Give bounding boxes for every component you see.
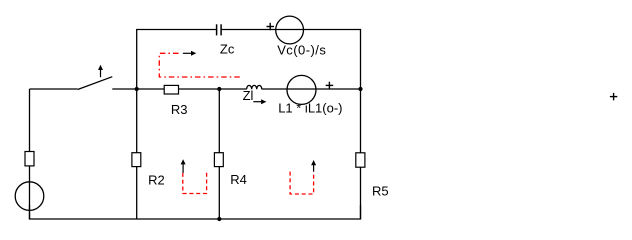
wire switch right contact xyxy=(112,88,136,90)
svg-text:R2: R2 xyxy=(148,173,165,188)
junction dot right node xyxy=(358,87,362,91)
svg-text:R3: R3 xyxy=(171,102,188,117)
junction dot R4 top node xyxy=(217,87,221,91)
wire bottom horizontal xyxy=(30,205,361,219)
mesh indicator right red dashed xyxy=(290,172,314,194)
inductor Zl coil xyxy=(247,85,262,89)
polarity plus Vc xyxy=(267,23,275,30)
resistor R2 box xyxy=(132,153,141,167)
polarity plus L1 source xyxy=(326,82,334,89)
stray plus right xyxy=(610,93,617,100)
mesh arrow left black xyxy=(181,159,186,173)
svg-text:Vc(0-)/s: Vc(0-)/s xyxy=(277,42,326,57)
svg-text:R4: R4 xyxy=(230,172,247,187)
wire top loop xyxy=(137,30,217,90)
wire left column vertical xyxy=(29,89,31,219)
mesh arrow top black xyxy=(183,51,196,56)
wire switch left horizontal xyxy=(30,88,78,90)
resistor R3 box xyxy=(164,85,178,94)
junction dot switch node xyxy=(135,87,139,91)
resistor R5 box xyxy=(356,153,365,167)
mesh arrow right black xyxy=(311,160,316,172)
wire middle horizontal right xyxy=(262,88,361,90)
junction dot bottom node xyxy=(217,217,221,221)
mesh indicator left red dashed xyxy=(183,171,207,194)
wire R4 column xyxy=(218,89,220,219)
wire middle horizontal left xyxy=(137,88,247,90)
wire R5 column xyxy=(360,89,362,219)
resistor R1 box left xyxy=(25,152,34,166)
svg-text:Zl: Zl xyxy=(243,88,254,103)
switch blade xyxy=(78,77,113,90)
resistor R4 box xyxy=(214,153,223,167)
svg-text:L1 * iL1(o-): L1 * iL1(o-) xyxy=(278,101,342,116)
svg-text:Zc: Zc xyxy=(220,42,235,57)
switch actuation arrow xyxy=(98,65,103,77)
capacitor Zc plates xyxy=(217,24,222,35)
inductor current arrow xyxy=(253,99,266,104)
mesh indicator top red dash-dot xyxy=(159,53,240,77)
wire top right segment xyxy=(221,30,361,90)
wire R2 column xyxy=(136,89,138,219)
source circle L1*iL1 xyxy=(287,75,316,104)
svg-text:R5: R5 xyxy=(372,184,389,199)
voltage source circle Vc xyxy=(276,16,304,44)
current source circle left xyxy=(15,182,44,211)
